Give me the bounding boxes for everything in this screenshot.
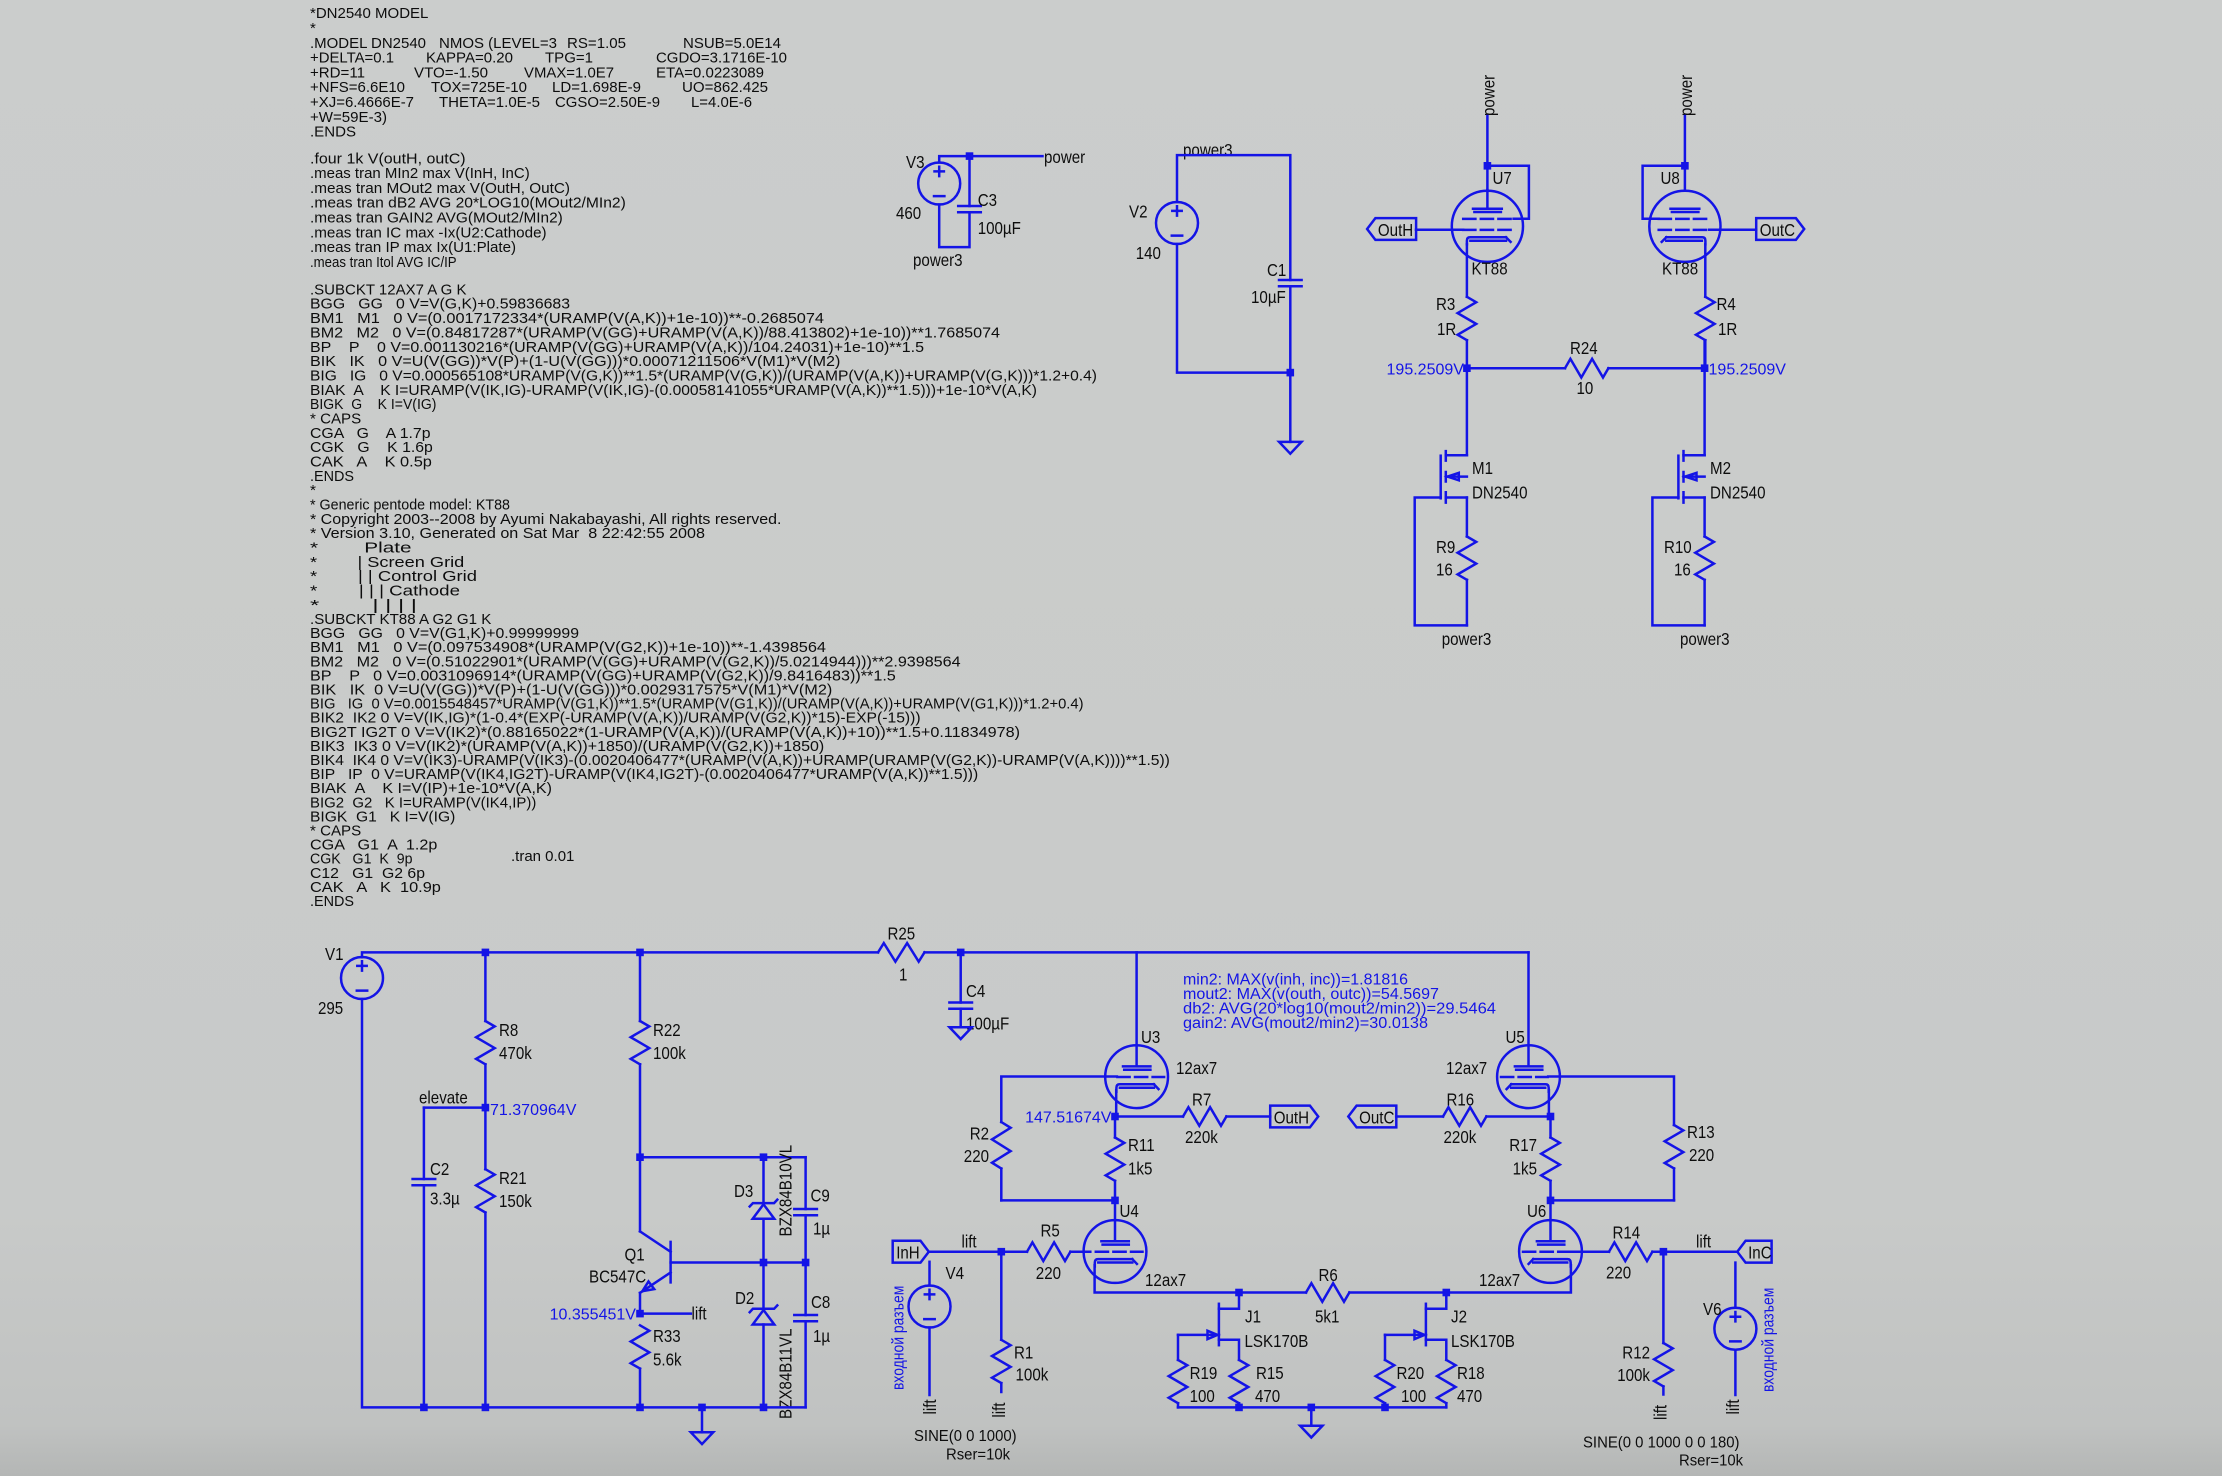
svg-text:Rser=10k: Rser=10k	[1679, 1453, 1743, 1470]
svg-text:J2: J2	[1451, 1307, 1467, 1327]
svg-text:R19: R19	[1190, 1363, 1218, 1383]
wire bus to U3 plate	[1135, 952, 1138, 1065]
wire U5 grid right to R13	[1548, 1077, 1674, 1126]
svg-text:OutC: OutC	[1760, 220, 1795, 240]
svg-text:12ax7: 12ax7	[1446, 1058, 1487, 1078]
wire R16 to OutC	[1396, 1115, 1443, 1118]
svg-text:InH: InH	[896, 1243, 920, 1263]
port flag InC	[1737, 1241, 1771, 1263]
wire jfet bottom bus	[1178, 1406, 1446, 1409]
svg-text:KT88: KT88	[1662, 259, 1698, 279]
svg-text:100k: 100k	[1016, 1364, 1049, 1384]
resistor R25	[878, 943, 925, 962]
ground (jfet)	[1300, 1426, 1322, 1438]
svg-text:InC: InC	[1748, 1243, 1772, 1263]
wire C2 top	[423, 1108, 426, 1179]
svg-text:SINE(0 0 1000 0 0 180): SINE(0 0 1000 0 0 180)	[1583, 1435, 1740, 1452]
junction J1 drain	[1235, 1289, 1243, 1297]
wire U3 grid left	[1001, 1077, 1117, 1123]
svg-text:LSK170B: LSK170B	[1245, 1331, 1309, 1351]
voltage source V2	[1156, 202, 1198, 244]
wire R2 bottom to junction	[1001, 1199, 1115, 1202]
port flag OutC (top)	[1756, 218, 1804, 240]
svg-text:R25: R25	[888, 924, 916, 944]
svg-text:Rser=10k: Rser=10k	[946, 1447, 1010, 1464]
svg-text:R8: R8	[499, 1020, 518, 1040]
junction bus/C2	[420, 1404, 428, 1412]
transistor Q1 BC547C	[640, 1231, 671, 1251]
wire lift stub (Q1)	[640, 1312, 691, 1315]
tube U7 KT88	[1452, 191, 1523, 262]
svg-text:R4: R4	[1717, 294, 1737, 314]
voltage source V1	[341, 957, 383, 999]
junction D3 top	[760, 1153, 768, 1161]
wire R6 to J2	[1349, 1291, 1446, 1294]
svg-text:.ENDS: .ENDS	[310, 124, 356, 141]
svg-text:295: 295	[318, 998, 343, 1018]
svg-text:D3: D3	[734, 1181, 753, 1201]
wire Q1 collector	[639, 1157, 642, 1231]
tube U8 KT88	[1649, 191, 1720, 262]
resistor R6	[1306, 1283, 1349, 1302]
ground (C4)	[950, 1027, 972, 1039]
svg-text:U3: U3	[1141, 1027, 1160, 1047]
svg-text:100: 100	[1190, 1386, 1215, 1406]
svg-text:16: 16	[1674, 560, 1691, 580]
port flag OutC (mid)	[1348, 1106, 1396, 1128]
junction lift/R12	[1660, 1248, 1668, 1256]
resistor R14	[1609, 1242, 1652, 1261]
jfet J1 LSK170B	[1218, 1304, 1221, 1345]
wire bus to U5 plate	[1527, 952, 1530, 1065]
svg-text:R13: R13	[1687, 1122, 1715, 1142]
wire R7 to OutH	[1226, 1115, 1270, 1118]
resistor R19	[1169, 1360, 1188, 1403]
svg-text:100µF: 100µF	[966, 1014, 1009, 1034]
tube U5 12ax7	[1497, 1045, 1560, 1108]
resistor R5	[1027, 1242, 1070, 1261]
svg-text:R16: R16	[1447, 1090, 1475, 1110]
wire C8 bottom to bus	[804, 1321, 807, 1407]
svg-text:lift: lift	[989, 1402, 1009, 1417]
svg-text:V1: V1	[325, 944, 344, 964]
svg-text:220: 220	[1689, 1145, 1714, 1165]
svg-text:220k: 220k	[1185, 1127, 1218, 1147]
svg-text:R20: R20	[1397, 1363, 1425, 1383]
wire D2 top lead	[762, 1263, 765, 1309]
svg-text:195.2509V: 195.2509V	[1387, 361, 1465, 378]
svg-text:.tran 0.01: .tran 0.01	[511, 848, 574, 865]
wire V1 bottom bus	[362, 999, 806, 1407]
svg-text:5.6k: 5.6k	[653, 1350, 682, 1370]
wire V3 top to power	[939, 156, 1042, 162]
svg-text:входной разъем: входной разъем	[890, 1286, 908, 1390]
wire U7 screen hook	[1487, 166, 1529, 219]
wire node to M1 drain	[1466, 368, 1469, 455]
svg-text:C3: C3	[978, 190, 997, 210]
wire C3 top	[968, 156, 971, 206]
svg-text:lift: lift	[962, 1231, 977, 1251]
wire J1 to R6	[1239, 1291, 1306, 1294]
junction bus/ground	[698, 1404, 706, 1412]
junction bus/C4	[957, 949, 965, 957]
svg-text:71.370964V: 71.370964V	[490, 1102, 577, 1119]
svg-text:470k: 470k	[499, 1043, 532, 1063]
svg-text:SINE(0 0 1000): SINE(0 0 1000)	[914, 1428, 1017, 1445]
wire M1 gate loop	[1415, 498, 1467, 626]
wire D3 top lead	[762, 1157, 765, 1203]
svg-text:220: 220	[1036, 1263, 1061, 1283]
svg-text:power3: power3	[1183, 140, 1233, 160]
wire node to R7	[1115, 1115, 1183, 1118]
svg-text:460: 460	[896, 203, 921, 223]
wire V2 bottom	[1177, 244, 1290, 373]
svg-text:10.355451V: 10.355451V	[550, 1307, 637, 1324]
svg-text:12ax7: 12ax7	[1145, 1270, 1186, 1290]
junction Q1 emitter node	[636, 1310, 644, 1318]
capacitor C1	[1279, 280, 1302, 286]
svg-text:R7: R7	[1192, 1090, 1211, 1110]
wire R14 to InC	[1652, 1250, 1737, 1253]
resistor R4	[1696, 297, 1715, 340]
svg-text:1k5: 1k5	[1513, 1159, 1537, 1179]
svg-text:1µ: 1µ	[813, 1326, 830, 1346]
wire to ground (V2)	[1289, 373, 1292, 442]
svg-text:U4: U4	[1120, 1201, 1140, 1221]
zener diode D3	[750, 1200, 778, 1207]
svg-text:R2: R2	[970, 1124, 989, 1144]
svg-text:lift: lift	[692, 1303, 707, 1323]
resistor R13	[1665, 1125, 1684, 1168]
svg-text:LSK170B: LSK170B	[1451, 1331, 1515, 1351]
junction R22/Q1/D3	[636, 1153, 644, 1161]
wire C8 top lead	[804, 1263, 807, 1316]
svg-text:1µ: 1µ	[813, 1219, 830, 1239]
wire U4 plate pin	[1114, 1200, 1117, 1240]
svg-text:V4: V4	[946, 1263, 965, 1283]
tube U4 12ax7	[1084, 1220, 1147, 1283]
svg-text:входной разъем: входной разъем	[1760, 1288, 1778, 1392]
svg-text:3.3µ: 3.3µ	[430, 1189, 460, 1209]
svg-text:470: 470	[1255, 1386, 1280, 1406]
svg-text:195.2509V: 195.2509V	[1709, 361, 1787, 378]
resistor R20	[1376, 1360, 1395, 1403]
svg-text:R10: R10	[1664, 537, 1692, 557]
wire InH to R5 node	[929, 1250, 1027, 1253]
wire U7 plate pin	[1486, 190, 1489, 208]
svg-text:R3: R3	[1436, 294, 1455, 314]
wire C9 top lead	[804, 1157, 807, 1209]
wire C3 bottom loop	[939, 205, 969, 248]
wire R24 to right node	[1608, 367, 1704, 370]
wire R25 to C4 junction	[925, 951, 961, 954]
svg-text:V3: V3	[906, 152, 925, 172]
svg-text:U6: U6	[1527, 1201, 1546, 1221]
resistor R22	[631, 1021, 650, 1064]
wire R4 to node	[1703, 340, 1706, 368]
resistor R1	[992, 1340, 1011, 1383]
svg-text:lift: lift	[1696, 1231, 1711, 1251]
svg-text:BZX84B11VL: BZX84B11VL	[776, 1328, 796, 1419]
wire U7 cathode to R3	[1466, 244, 1469, 296]
mosfet M1	[1446, 455, 1467, 497]
svg-text:U7: U7	[1493, 168, 1512, 188]
svg-text:U5: U5	[1506, 1027, 1525, 1047]
junction U8 plate	[1681, 162, 1689, 170]
wire ground stem (jfet)	[1310, 1407, 1313, 1425]
junction bus/R20	[1381, 1404, 1389, 1412]
node junction U5 cathode	[1547, 1113, 1555, 1121]
capacitor C8	[794, 1315, 817, 1321]
wire D2 bottom lead	[762, 1325, 765, 1408]
resistor R15	[1230, 1360, 1249, 1403]
junction U7 plate	[1484, 162, 1492, 170]
voltage source V3	[918, 163, 960, 205]
svg-text:R21: R21	[499, 1168, 527, 1188]
svg-text:C4: C4	[966, 981, 986, 1001]
svg-text:10: 10	[1577, 378, 1594, 398]
wire elevate	[424, 1106, 486, 1109]
wire V6 bottom	[1734, 1350, 1737, 1395]
ground (PSU)	[691, 1432, 713, 1444]
svg-text:147.51674V: 147.51674V	[1025, 1109, 1112, 1126]
junction V2/C1 bottom	[1287, 369, 1295, 377]
junction base/C9 bottom	[802, 1259, 810, 1267]
resistor R21	[476, 1169, 495, 1212]
svg-text:DN2540: DN2540	[1472, 483, 1528, 503]
svg-text:220k: 220k	[1444, 1127, 1477, 1147]
svg-text:power3: power3	[913, 250, 963, 270]
voltage source V4	[909, 1286, 951, 1328]
capacitor C4	[949, 1003, 972, 1009]
svg-text:R1: R1	[1014, 1343, 1033, 1363]
wire U4 cathode	[1095, 1265, 1239, 1292]
resistor R2	[992, 1122, 1011, 1169]
svg-text:DN2540: DN2540	[1710, 483, 1766, 503]
svg-text:1: 1	[899, 965, 907, 985]
svg-text:lift: lift	[1650, 1405, 1670, 1420]
svg-text:KT88: KT88	[1472, 259, 1508, 279]
svg-text:R9: R9	[1436, 537, 1455, 557]
resistor R10	[1695, 537, 1714, 580]
wire U8 grid to OutC	[1709, 228, 1756, 231]
junction bus/R21	[482, 1404, 490, 1412]
wire C4 top	[959, 952, 962, 1002]
svg-text:.ENDS: .ENDS	[310, 893, 354, 910]
resistor R18	[1437, 1360, 1456, 1403]
svg-text:.meas tran Itol AVG IC/IP: .meas tran Itol AVG IC/IP	[310, 254, 457, 271]
resistor R12	[1654, 1343, 1673, 1386]
wire V4 bottom	[928, 1328, 931, 1396]
resistor R24	[1565, 359, 1608, 378]
node junction 147V	[1111, 1113, 1119, 1121]
svg-text:V6: V6	[1703, 1299, 1722, 1319]
wire D3 bottom lead	[762, 1219, 765, 1263]
wire Q1 emitter down	[639, 1293, 642, 1314]
junction bus/D2	[760, 1404, 768, 1412]
svg-text:J1: J1	[1245, 1307, 1261, 1327]
zener diode D2	[750, 1305, 778, 1312]
resistor R7	[1183, 1107, 1226, 1126]
svg-text:R15: R15	[1256, 1363, 1284, 1383]
port flag OutH (mid)	[1270, 1106, 1318, 1128]
wire V1 top to bus	[362, 952, 878, 957]
wire U6 plate pin	[1549, 1200, 1552, 1240]
junction bus/R15	[1235, 1404, 1243, 1412]
svg-text:100k: 100k	[653, 1043, 686, 1063]
wire power to U7 plate	[1486, 116, 1489, 191]
junction base/D3 bottom	[760, 1259, 768, 1267]
svg-text:16: 16	[1436, 560, 1453, 580]
junction bus/R33	[636, 1404, 644, 1412]
wire ground stem (PSU)	[701, 1407, 704, 1432]
svg-text:*DN2540 MODEL: *DN2540 MODEL	[310, 5, 428, 22]
resistor R9	[1458, 537, 1477, 580]
svg-text:140: 140	[1136, 243, 1161, 263]
wire R5 to U4 grid	[1070, 1250, 1090, 1253]
wire V4 top	[928, 1262, 931, 1286]
resistor R11	[1106, 1138, 1125, 1181]
svg-text:1R: 1R	[1437, 319, 1456, 339]
wire V2 top to C1	[1177, 155, 1290, 280]
junction R17/U6 plate	[1547, 1197, 1555, 1205]
svg-text:U8: U8	[1661, 168, 1680, 188]
svg-text:100µF: 100µF	[978, 218, 1021, 238]
resistor R17	[1541, 1138, 1560, 1181]
tube U3 12ax7	[1105, 1045, 1168, 1108]
capacitor C2	[413, 1179, 436, 1185]
svg-text:C9: C9	[811, 1186, 830, 1206]
port flag OutH (top)	[1367, 218, 1416, 240]
svg-text:R24: R24	[1570, 338, 1598, 358]
svg-text:5k1: 5k1	[1315, 1307, 1339, 1327]
node junction right 195.2509V	[1701, 364, 1709, 372]
junction J2 drain	[1443, 1289, 1451, 1297]
svg-text:R17: R17	[1509, 1135, 1537, 1155]
svg-text:lift: lift	[1723, 1399, 1743, 1414]
svg-text:elevate: elevate	[419, 1088, 468, 1108]
svg-text:C2: C2	[430, 1159, 449, 1179]
svg-text:R5: R5	[1041, 1221, 1060, 1241]
svg-text:150k: 150k	[499, 1191, 532, 1211]
svg-text:R22: R22	[653, 1020, 681, 1040]
capacitor C9	[794, 1209, 817, 1215]
svg-text:1R: 1R	[1718, 319, 1737, 339]
junction lift/R1	[998, 1248, 1006, 1256]
wire OutH to U7 grid	[1416, 228, 1463, 231]
wire V6 top	[1734, 1263, 1737, 1308]
wire U8 screen hook	[1643, 166, 1685, 219]
svg-text:R11: R11	[1128, 1135, 1155, 1155]
svg-text:gain2: AVG(mout2/min2)=30.0138: gain2: AVG(mout2/min2)=30.0138	[1183, 1015, 1428, 1032]
junction bus/R22	[636, 949, 644, 957]
wire C2 bottom	[423, 1185, 426, 1407]
node junction left 195.2509V	[1463, 364, 1471, 372]
resistor R8	[476, 1021, 495, 1064]
junction R11/U4 plate	[1111, 1197, 1119, 1205]
svg-text:M2: M2	[1710, 458, 1731, 478]
svg-text:OutH: OutH	[1274, 1108, 1309, 1128]
junction bus/ground (jfet)	[1308, 1404, 1316, 1412]
wire R13 bottom	[1551, 1199, 1675, 1202]
tube U6 12ax7	[1519, 1220, 1582, 1283]
svg-text:power: power	[1478, 75, 1498, 116]
svg-text:100: 100	[1401, 1386, 1426, 1406]
wire U8 cathode to R4	[1704, 244, 1707, 296]
junction V3/C3	[966, 152, 974, 160]
capacitor C3	[958, 206, 981, 212]
wire node to M2 drain	[1703, 368, 1706, 455]
mosfet M2	[1684, 455, 1705, 497]
svg-text:220: 220	[964, 1146, 989, 1166]
svg-text:470: 470	[1457, 1386, 1482, 1406]
junction bus/R8	[482, 949, 490, 957]
wire U6 grid to R14	[1570, 1250, 1609, 1253]
svg-text:D2: D2	[735, 1288, 754, 1308]
svg-text:V2: V2	[1129, 202, 1148, 222]
svg-text:10µF: 10µF	[1251, 287, 1286, 307]
voltage source V6	[1714, 1308, 1756, 1350]
jfet J2 LSK170B	[1425, 1304, 1428, 1345]
svg-text:BC547C: BC547C	[589, 1267, 646, 1287]
wire U3 cathode	[1115, 1090, 1116, 1116]
resistor R33	[631, 1325, 650, 1368]
wire M2 gate loop	[1652, 498, 1704, 626]
svg-text:BZX84B10VL: BZX84B10VL	[776, 1145, 796, 1237]
svg-text:OutH: OutH	[1378, 220, 1413, 240]
svg-text:Q1: Q1	[625, 1245, 645, 1265]
wire node to R16	[1486, 1115, 1550, 1118]
wire node to R24	[1467, 367, 1565, 370]
svg-text:R6: R6	[1319, 1265, 1338, 1285]
junction elevate	[482, 1104, 490, 1112]
wire power to U8 plate	[1684, 116, 1687, 191]
svg-text:220: 220	[1606, 1263, 1631, 1283]
svg-text:R12: R12	[1622, 1343, 1650, 1363]
svg-text:lift: lift	[920, 1399, 940, 1414]
svg-text:power: power	[1044, 147, 1085, 167]
svg-text:.ENDS: .ENDS	[310, 468, 354, 485]
port flag InH	[893, 1241, 929, 1263]
svg-text:12ax7: 12ax7	[1479, 1270, 1520, 1290]
wire U5 cathode	[1549, 1090, 1551, 1116]
svg-text:R33: R33	[653, 1326, 681, 1346]
resistor R3	[1458, 297, 1477, 340]
svg-text:R14: R14	[1613, 1223, 1641, 1243]
resistor R16	[1443, 1107, 1486, 1126]
wire Q1 base	[671, 1261, 806, 1264]
svg-text:R18: R18	[1457, 1363, 1485, 1383]
svg-text:C1: C1	[1267, 260, 1286, 280]
svg-text:M1: M1	[1472, 458, 1493, 478]
svg-text:1k5: 1k5	[1128, 1159, 1152, 1179]
svg-text:12ax7: 12ax7	[1176, 1058, 1217, 1078]
svg-text:power3: power3	[1442, 629, 1492, 649]
svg-text:power: power	[1676, 75, 1696, 116]
wire to D3/C9 top	[640, 1156, 806, 1159]
svg-text:OutC: OutC	[1359, 1108, 1394, 1128]
wire C4 to ground	[959, 1009, 962, 1027]
wire C9 bottom lead	[804, 1215, 807, 1262]
svg-text:power3: power3	[1680, 629, 1730, 649]
ground (V2/C1)	[1279, 442, 1301, 454]
wire bus to U3/U5	[961, 951, 1529, 954]
svg-text:C8: C8	[811, 1292, 830, 1312]
wire J2 to U6 cathode	[1446, 1265, 1571, 1292]
svg-text:100k: 100k	[1617, 1365, 1650, 1385]
wire C1 bottom	[1289, 286, 1292, 372]
